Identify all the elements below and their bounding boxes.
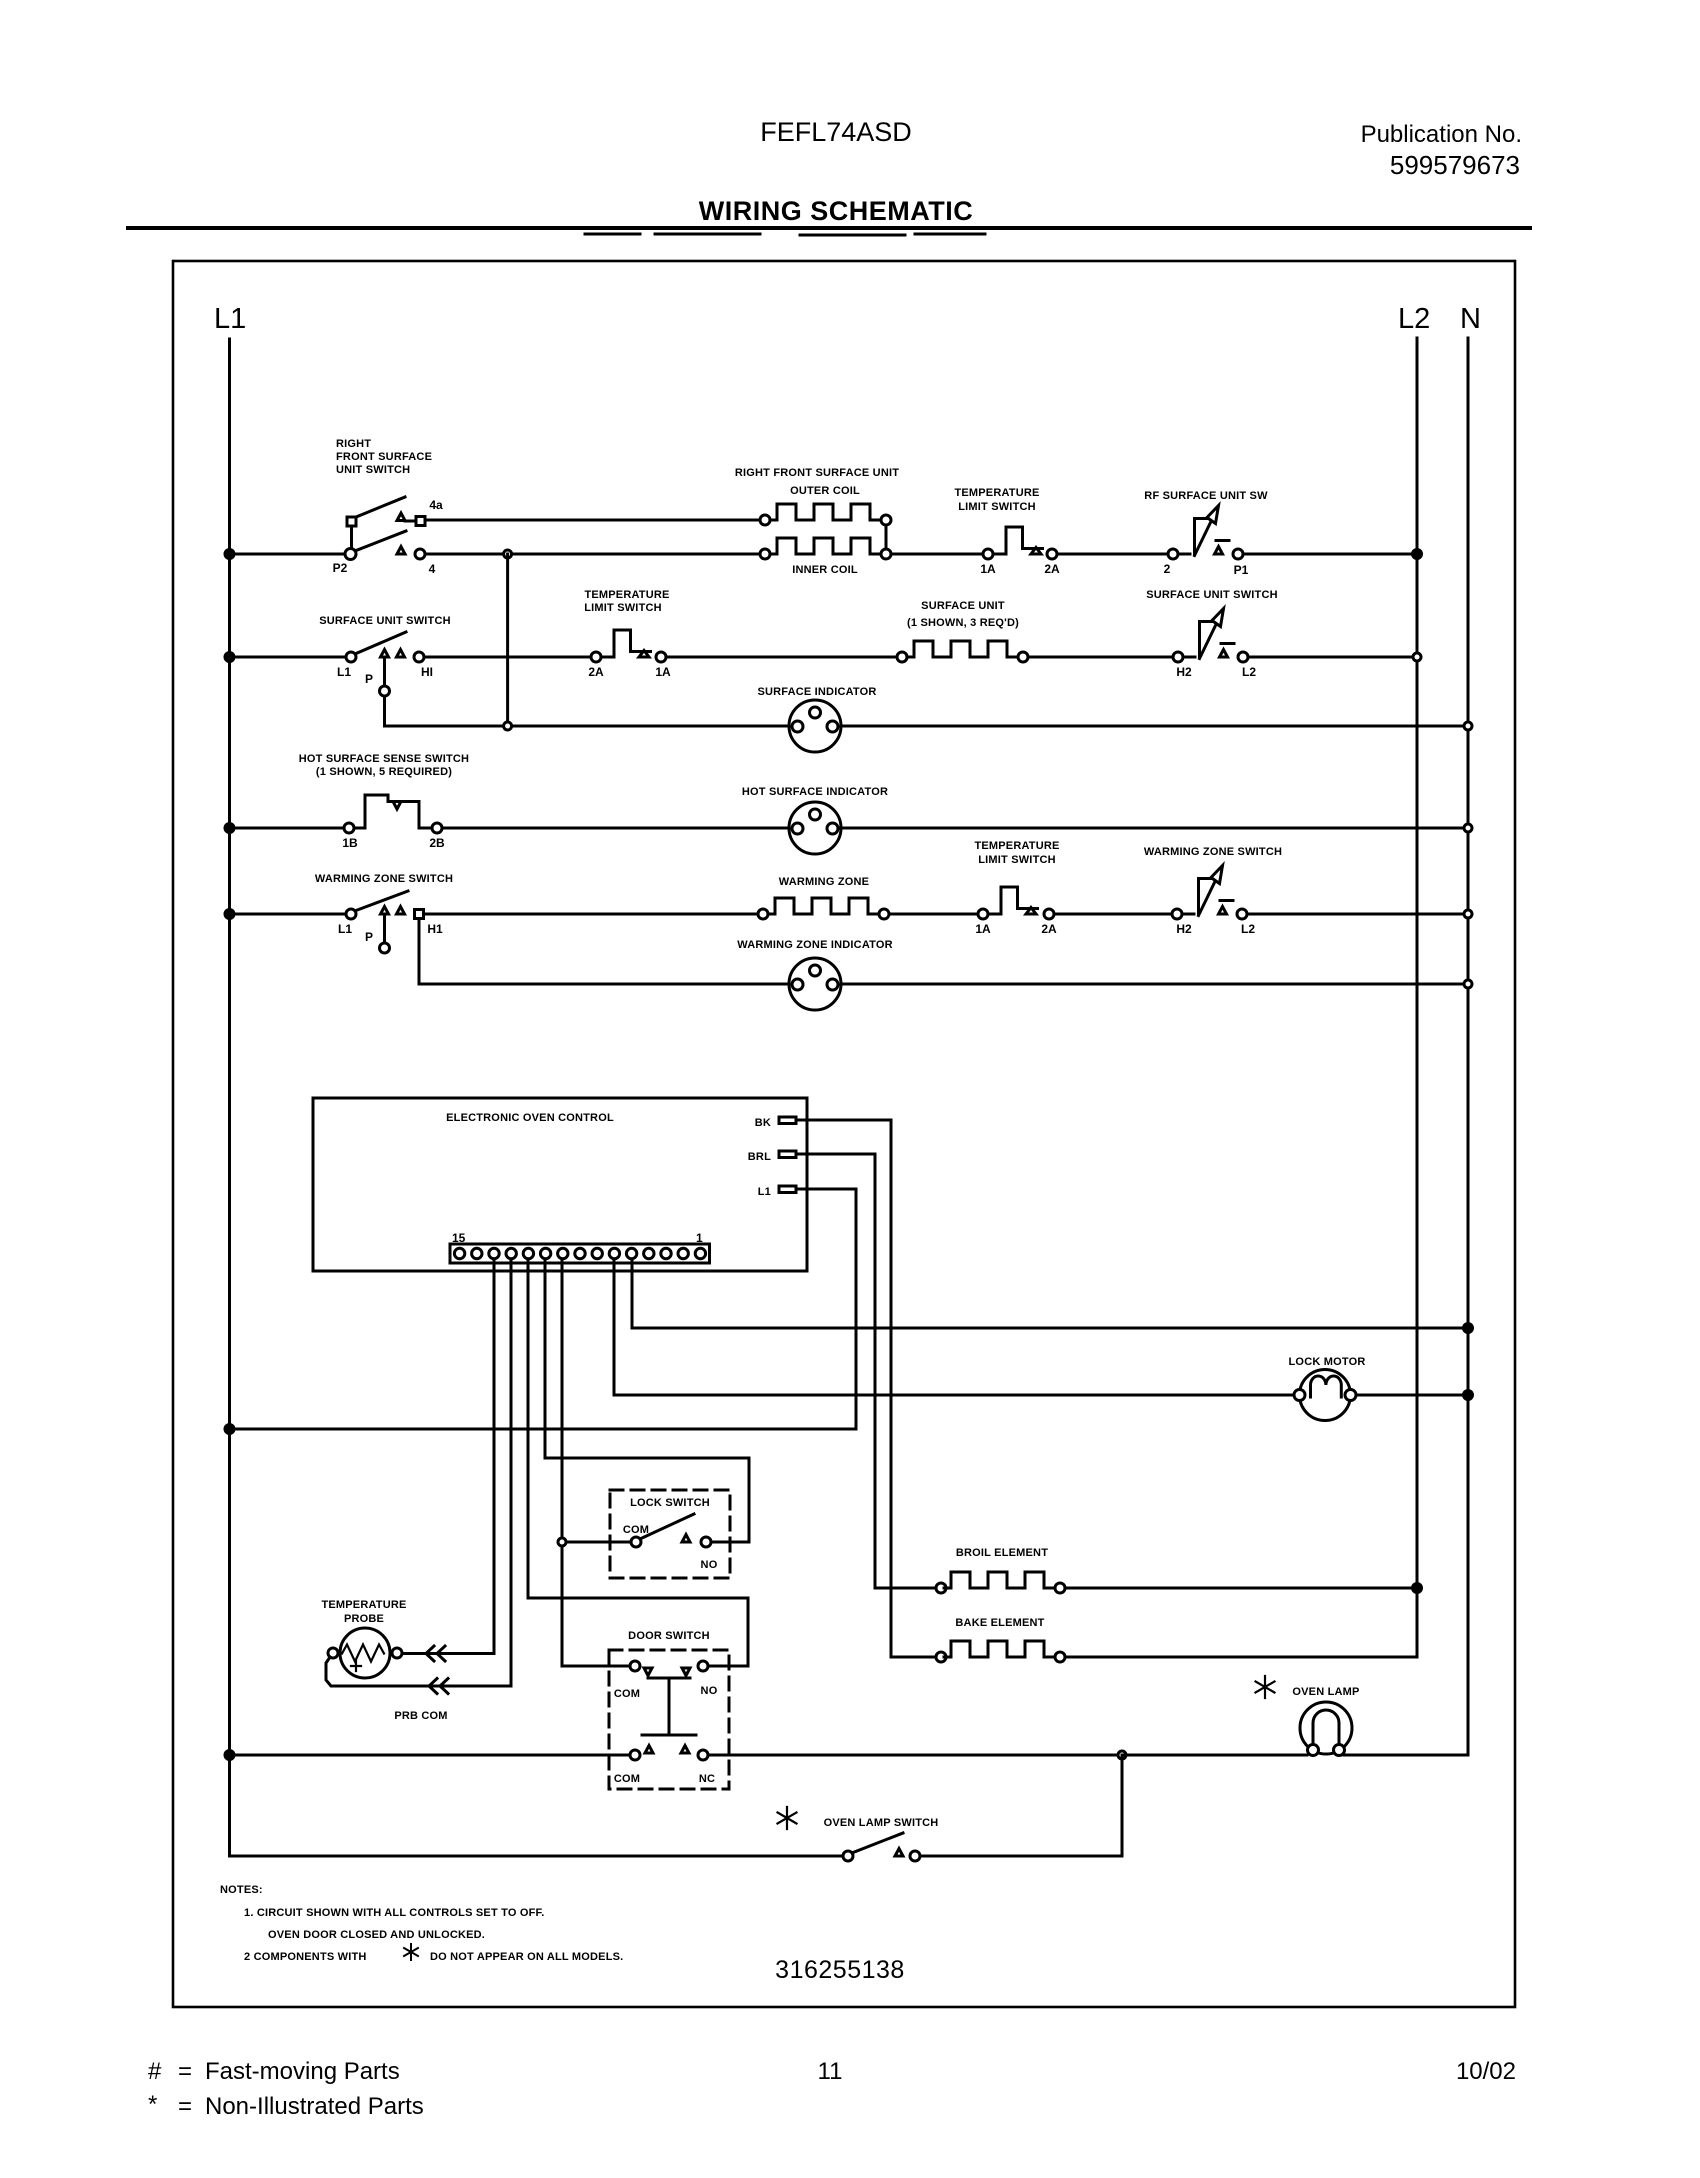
junction N lock motor row xyxy=(1464,1391,1473,1400)
wire warming zone to 1A xyxy=(889,913,978,916)
svg-text:Non-Illustrated Parts: Non-Illustrated Parts xyxy=(205,2093,424,2120)
svg-text:(1 SHOWN, 3 REQ'D): (1 SHOWN, 3 REQ'D) xyxy=(907,617,1019,629)
junction L2 row2 xyxy=(1413,653,1421,661)
switch temperature limit switch row4 xyxy=(978,909,988,919)
wire broil to L2 xyxy=(1065,1587,1417,1590)
wire 4a to outer coil xyxy=(425,519,760,522)
wire 2B to hot surface indicator xyxy=(442,827,790,830)
wire BK to bake element xyxy=(891,1656,936,1659)
svg-text:L2: L2 xyxy=(1242,665,1256,679)
svg-text:LIMIT SWITCH: LIMIT SWITCH xyxy=(958,501,1036,513)
svg-text:LOCK SWITCH: LOCK SWITCH xyxy=(630,1497,710,1509)
svg-text:SURFACE UNIT SWITCH: SURFACE UNIT SWITCH xyxy=(319,615,451,627)
switch warming zone switch left xyxy=(346,891,424,919)
svg-text:2A: 2A xyxy=(1044,562,1060,576)
svg-text:PRB COM: PRB COM xyxy=(394,1710,447,1722)
svg-text:COM: COM xyxy=(623,1524,649,1536)
switch hot surface sense switch xyxy=(344,795,442,833)
wire L1 bus vertical xyxy=(228,339,231,1856)
junction N warming zone indicator xyxy=(1464,980,1472,988)
asterisk oven lamp switch xyxy=(778,1807,797,1829)
junction L1 oven row xyxy=(225,1425,234,1434)
wire P drop xyxy=(383,658,386,726)
switch warming zone switch right xyxy=(1172,909,1182,919)
junction N row4 xyxy=(1464,910,1472,918)
thermistor temperature probe xyxy=(328,1628,402,1678)
svg-text:UNIT SWITCH: UNIT SWITCH xyxy=(336,464,410,476)
svg-text:COM: COM xyxy=(614,1773,640,1785)
svg-text:HI: HI xyxy=(421,665,433,679)
wire pin6 lock motor drop xyxy=(613,1259,616,1395)
wire 4 to inner coil xyxy=(425,553,760,556)
wire inner coil to 1A xyxy=(891,553,983,556)
svg-text:TEMPERATURE: TEMPERATURE xyxy=(584,589,669,601)
svg-text:Publication No.: Publication No. xyxy=(1361,121,1522,148)
svg-text:NO: NO xyxy=(701,1559,718,1571)
wire 2A to warming zone switch right xyxy=(1054,913,1172,916)
svg-text:2A: 2A xyxy=(588,665,604,679)
svg-text:TEMPERATURE: TEMPERATURE xyxy=(321,1599,406,1611)
wire row1 drop to indicator row xyxy=(506,554,509,726)
svg-text:RIGHT: RIGHT xyxy=(336,438,371,450)
terminal P row4 xyxy=(380,943,390,953)
svg-text:P1: P1 xyxy=(1234,563,1249,577)
svg-text:H1: H1 xyxy=(427,922,443,936)
junction L1 row2 xyxy=(225,653,234,662)
svg-text:1A: 1A xyxy=(975,922,991,936)
lock switch dashed box xyxy=(610,1490,730,1578)
asterisk note 2 xyxy=(404,1944,418,1960)
wire probe top to pin13 xyxy=(402,1652,494,1655)
wire lamp row to N xyxy=(1122,1754,1468,1757)
junction L2 broil xyxy=(1413,1584,1422,1593)
svg-text:2: 2 xyxy=(1164,562,1171,576)
pins of connector strip xyxy=(454,1248,705,1258)
wire N bus vertical xyxy=(1467,338,1470,1755)
wire L1 to switch P2 xyxy=(230,553,345,556)
wire lock motor row xyxy=(614,1394,1468,1397)
svg-text:INNER COIL: INNER COIL xyxy=(792,564,858,576)
wire bake to L2 xyxy=(1065,1656,1417,1659)
svg-text:NOTES:: NOTES: xyxy=(220,1884,263,1896)
svg-text:L2: L2 xyxy=(1241,922,1255,936)
switch door switch upper xyxy=(630,1661,708,1735)
svg-text:BRL: BRL xyxy=(748,1151,771,1163)
pin BRL connector xyxy=(779,1151,796,1158)
motor lock motor xyxy=(1294,1370,1356,1421)
svg-text:2 COMPONENTS WITH: 2 COMPONENTS WITH xyxy=(244,1951,367,1963)
switch temperature limit switch row2 xyxy=(591,652,601,662)
lamp surface indicator xyxy=(789,700,841,752)
svg-text:L1: L1 xyxy=(338,922,352,936)
svg-text:(1 SHOWN, 5 REQUIRED): (1 SHOWN, 5 REQUIRED) xyxy=(316,766,452,778)
junction node row1 drop xyxy=(504,550,512,558)
junction L2 row1 xyxy=(1413,550,1422,559)
svg-text:4a: 4a xyxy=(429,498,443,512)
wire surface unit to H2 xyxy=(1028,656,1173,659)
svg-text:15: 15 xyxy=(452,1231,466,1245)
header rule smudge xyxy=(585,234,985,235)
svg-text:SURFACE INDICATOR: SURFACE INDICATOR xyxy=(757,686,876,698)
switch surface unit switch right xyxy=(1173,652,1183,662)
svg-text:LOCK MOTOR: LOCK MOTOR xyxy=(1289,1356,1366,1368)
wire lock NO to pin10 xyxy=(545,1458,749,1542)
resistor outer coil xyxy=(760,515,770,525)
wire HI to 2A xyxy=(424,656,591,659)
svg-text:TEMPERATURE: TEMPERATURE xyxy=(974,840,1059,852)
svg-text:2A: 2A xyxy=(1041,922,1057,936)
resistor warming zone xyxy=(758,909,768,919)
wire L1 to warming zone switch xyxy=(230,913,346,916)
svg-text:*: * xyxy=(148,2091,157,2118)
wire door NO link from pin11 xyxy=(528,1598,748,1666)
svg-text:Fast-moving Parts: Fast-moving Parts xyxy=(205,2058,400,2085)
switch RF surface unit sw xyxy=(1168,549,1178,559)
svg-text:WARMING ZONE SWITCH: WARMING ZONE SWITCH xyxy=(1144,846,1282,858)
box electronic oven control U1 xyxy=(313,1098,807,1271)
svg-text:11: 11 xyxy=(818,2058,843,2085)
svg-text:1: 1 xyxy=(696,1231,703,1245)
svg-text:ELECTRONIC OVEN CONTROL: ELECTRONIC OVEN CONTROL xyxy=(446,1112,614,1124)
connector strip P1 xyxy=(450,1244,710,1263)
svg-text:L1: L1 xyxy=(337,665,351,679)
wire L2 bus vertical xyxy=(1416,338,1419,1657)
svg-text:TEMPERATURE: TEMPERATURE xyxy=(954,487,1039,499)
svg-text:PROBE: PROBE xyxy=(344,1613,384,1625)
wire BK to bake drop xyxy=(796,1120,891,1657)
wire L1 to door COM lower xyxy=(230,1754,631,1757)
wire to N bus row4 xyxy=(1247,913,1468,916)
svg-text:WARMING ZONE INDICATOR: WARMING ZONE INDICATOR xyxy=(737,939,893,951)
svg-text:P: P xyxy=(365,672,373,686)
wire pin13 probe top drop xyxy=(493,1259,496,1654)
switch temperature limit switch row1 xyxy=(983,549,993,559)
wire P drop row4 xyxy=(383,915,386,943)
svg-text:P2: P2 xyxy=(333,561,348,575)
switch surface unit switch left xyxy=(346,632,424,662)
chevron probe com xyxy=(429,1679,448,1694)
wire surface indicator row xyxy=(385,725,1469,728)
svg-text:WIRING SCHEMATIC: WIRING SCHEMATIC xyxy=(699,196,973,226)
svg-text:HOT SURFACE INDICATOR: HOT SURFACE INDICATOR xyxy=(742,786,888,798)
wire L1 to EOC L1 pin xyxy=(230,1428,857,1431)
svg-text:RF SURFACE UNIT SW: RF SURFACE UNIT SW xyxy=(1144,490,1268,502)
lamp warming zone indicator xyxy=(789,958,841,1010)
wire oven lamp switch row xyxy=(230,1855,1123,1858)
resistor surface unit xyxy=(897,652,907,662)
svg-text:SURFACE UNIT: SURFACE UNIT xyxy=(921,600,1005,612)
svg-text:BAKE ELEMENT: BAKE ELEMENT xyxy=(955,1617,1044,1629)
svg-text:=: = xyxy=(178,2058,192,2085)
junction L1 row1 xyxy=(225,550,234,559)
svg-text:LIMIT SWITCH: LIMIT SWITCH xyxy=(584,602,662,614)
svg-text:DO NOT APPEAR ON ALL MODELS.: DO NOT APPEAR ON ALL MODELS. xyxy=(430,1951,623,1963)
wire warming zone indicator row xyxy=(419,983,1468,986)
wire lamp junction drop xyxy=(1121,1755,1124,1856)
wire 1A to surface unit xyxy=(666,656,897,659)
svg-text:4: 4 xyxy=(429,562,436,576)
wire line to N from pin5 xyxy=(632,1327,1468,1330)
switch oven lamp switch xyxy=(843,1833,920,1861)
svg-text:HOT SURFACE SENSE SWITCH: HOT SURFACE SENSE SWITCH xyxy=(299,753,469,765)
lamp hot surface indicator xyxy=(789,802,841,854)
header rule xyxy=(128,226,1530,230)
svg-text:OUTER COIL: OUTER COIL xyxy=(790,485,860,497)
wire junction to lock COM xyxy=(562,1541,631,1544)
svg-text:BK: BK xyxy=(755,1117,771,1129)
wire door NC to lamp junction xyxy=(708,1754,1122,1757)
svg-text:#: # xyxy=(148,2058,162,2085)
junction drop meets indicator row xyxy=(504,722,512,730)
svg-text:1A: 1A xyxy=(980,562,996,576)
pin BK connector xyxy=(779,1117,796,1124)
switch door switch lower xyxy=(630,1746,708,1761)
lamp oven lamp xyxy=(1300,1702,1352,1756)
svg-text:SURFACE UNIT SWITCH: SURFACE UNIT SWITCH xyxy=(1146,589,1278,601)
svg-text:LIMIT SWITCH: LIMIT SWITCH xyxy=(978,854,1056,866)
wire H1 to warming zone coil xyxy=(424,913,758,916)
wire pin10 lock NO drop xyxy=(544,1259,547,1458)
junction lock COM tap xyxy=(558,1538,566,1546)
svg-text:1B: 1B xyxy=(342,836,358,850)
wire 2A to RF switch xyxy=(1057,553,1168,556)
svg-text:1. CIRCUIT SHOWN WITH ALL CO: 1. CIRCUIT SHOWN WITH ALL CONTROLS SET T… xyxy=(244,1907,545,1919)
wire L1 pin drop xyxy=(796,1189,856,1429)
svg-text:FEFL74ASD: FEFL74ASD xyxy=(760,117,912,147)
junction N line A xyxy=(1464,1324,1473,1333)
svg-text:L1: L1 xyxy=(214,303,246,335)
svg-text:599579673: 599579673 xyxy=(1390,150,1520,180)
junction L1 row3 xyxy=(225,824,234,833)
svg-text:1A: 1A xyxy=(655,665,671,679)
svg-text:P: P xyxy=(365,930,373,944)
junction N row3 xyxy=(1464,824,1472,832)
svg-text:N: N xyxy=(1460,303,1481,335)
asterisk oven lamp xyxy=(1256,1676,1275,1698)
wire L1 to surface unit switch xyxy=(230,656,346,659)
wire L2 terminal to L2 bus xyxy=(1248,656,1417,659)
switch lock switch xyxy=(631,1514,711,1547)
wire indicator to N bus xyxy=(841,827,1469,830)
door switch dashed box xyxy=(609,1650,729,1789)
wire probe com loop to pin12 xyxy=(326,1657,511,1686)
junction L1 bottom row xyxy=(225,1751,234,1760)
svg-text:NC: NC xyxy=(699,1773,715,1785)
switch SW1 right front surface unit switch xyxy=(345,497,425,560)
svg-text:NO: NO xyxy=(701,1685,718,1697)
wire coils right link xyxy=(885,525,888,549)
chevron probe top xyxy=(426,1646,445,1661)
wire L1 to sense switch xyxy=(230,827,345,830)
junction oven lamp tap xyxy=(1118,1751,1126,1759)
svg-text:=: = xyxy=(178,2093,192,2120)
wire pin9 to door COM xyxy=(562,1665,630,1668)
svg-text:OVEN DOOR CLOSED AND UNLOCKED.: OVEN DOOR CLOSED AND UNLOCKED. xyxy=(268,1929,485,1941)
svg-text:H2: H2 xyxy=(1176,922,1192,936)
junction N surface indicator row xyxy=(1464,722,1472,730)
wire pin12 probe com drop xyxy=(510,1259,513,1686)
svg-text:RIGHT FRONT SURFACE UNIT: RIGHT FRONT SURFACE UNIT xyxy=(735,467,899,479)
svg-text:DOOR SWITCH: DOOR SWITCH xyxy=(628,1630,710,1642)
resistor broil element xyxy=(936,1583,946,1593)
svg-text:WARMING ZONE: WARMING ZONE xyxy=(779,876,869,888)
wire BRL to broil element xyxy=(875,1587,936,1590)
resistor bake element xyxy=(936,1652,946,1662)
svg-text:L2: L2 xyxy=(1398,303,1430,335)
resistor inner coil xyxy=(760,549,770,559)
svg-text:COM: COM xyxy=(614,1688,640,1700)
svg-text:OVEN LAMP SWITCH: OVEN LAMP SWITCH xyxy=(824,1817,939,1829)
svg-text:OVEN LAMP: OVEN LAMP xyxy=(1292,1686,1359,1698)
svg-text:10/02: 10/02 xyxy=(1456,2058,1516,2085)
wire pin9 lock COM drop xyxy=(561,1259,564,1666)
pin L1 connector xyxy=(779,1186,796,1193)
svg-text:316255138: 316255138 xyxy=(775,1956,905,1984)
svg-text:FRONT SURFACE: FRONT SURFACE xyxy=(336,451,432,463)
junction L1 row4 xyxy=(225,910,234,919)
wire H1 drop xyxy=(418,919,421,984)
svg-text:BROIL ELEMENT: BROIL ELEMENT xyxy=(956,1547,1048,1559)
svg-text:L1: L1 xyxy=(758,1186,771,1198)
wire BRL to broil drop xyxy=(796,1154,875,1588)
wire pin5 N drop xyxy=(631,1259,634,1328)
svg-text:H2: H2 xyxy=(1176,665,1192,679)
terminal P xyxy=(380,686,390,696)
svg-text:2B: 2B xyxy=(429,836,445,850)
wire pin11 door NO drop xyxy=(527,1259,530,1598)
wire P1 to L2 bus xyxy=(1243,553,1417,556)
svg-text:WARMING ZONE SWITCH: WARMING ZONE SWITCH xyxy=(315,873,453,885)
